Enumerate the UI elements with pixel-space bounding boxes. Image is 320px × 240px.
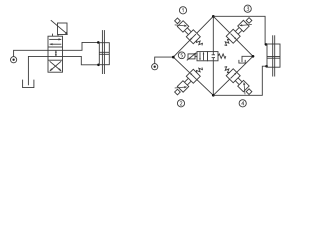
node right dot <box>252 55 255 58</box>
V1 position box 1 arrow left <box>50 43 62 45</box>
node left dot <box>172 56 175 59</box>
V1 position box 3 crossed arrows <box>50 61 62 71</box>
proportional directional valve V1 body <box>48 36 63 72</box>
label circle 4 (valve 4) <box>239 100 246 107</box>
wire: bottom node to cylinder C2 bottom port <box>213 66 267 95</box>
label circle 1 (valve 1) <box>179 7 186 14</box>
diamond edge TL <box>173 16 213 57</box>
cylinder C1 through rod <box>102 30 104 74</box>
wire: P2 supply to bridge left node <box>155 57 174 64</box>
wire: P1 supply to valve V1 and port A riser to cylinder C1 <box>14 42 100 56</box>
bridge throttle valve 2 (bottom-left edge) <box>173 64 206 97</box>
V1 pilot proportional solenoid box <box>58 23 68 35</box>
diamond edge BL <box>173 57 213 95</box>
diamond edge BR <box>213 56 253 95</box>
wire: tank return from V1 and port B riser to cylinder C1 <box>28 56 99 85</box>
C2 bottom port junction dot <box>265 65 268 68</box>
cylinder C2 body <box>267 44 280 67</box>
pressure source P2 (bridge circuit) <box>152 64 158 70</box>
node B junction dot (C1 bottom port) <box>97 64 100 67</box>
valve 5 right box blocked ports <box>212 52 215 61</box>
V1 pilot solenoid diagonal arrow <box>51 20 68 34</box>
tank T2 at bridge right node <box>239 56 253 63</box>
cylinder C1 piston <box>99 52 109 54</box>
bridge throttle valve 3 (top-right edge) <box>221 16 254 49</box>
V1 pilot connection ticks <box>52 34 54 37</box>
cylinder C1 body <box>99 43 109 65</box>
label circle 2 (valve 2) <box>177 100 184 107</box>
bridge throttle valve 1 (top-left edge) <box>173 16 206 49</box>
V1 position box 1 arrow right <box>49 38 61 40</box>
node A junction dot (C1 top port) <box>97 41 100 44</box>
label circle 5 (valve 5) <box>178 52 185 59</box>
bridge throttle valve 4 (bottom-right edge) <box>221 64 254 97</box>
valve 5 left box flow arrows <box>199 52 204 60</box>
node bottom dot <box>212 94 215 97</box>
wires: top/bottom nodes to bypass valve 5 <box>212 16 214 51</box>
C2 top port junction dot <box>265 43 268 46</box>
node top dot <box>212 15 215 18</box>
bypass valve 5 two-position body <box>197 52 218 61</box>
valve V1 divider <box>48 46 63 48</box>
pressure source P1 (left circuit) <box>11 57 17 63</box>
valve 5 solenoid with arrow <box>187 52 197 60</box>
tank T1 (left circuit reservoir) <box>23 80 34 88</box>
cylinder C2 through rod <box>273 35 275 76</box>
cylinder C2 piston <box>267 57 280 59</box>
diamond edge TR <box>213 16 253 56</box>
valve 5 return spring <box>218 54 226 59</box>
label circle 3 (valve 3) <box>244 5 251 12</box>
V1 center box double arrow <box>55 50 57 56</box>
valve V1 divider <box>48 59 63 61</box>
wire: top node to cylinder C2 top port <box>213 16 267 44</box>
